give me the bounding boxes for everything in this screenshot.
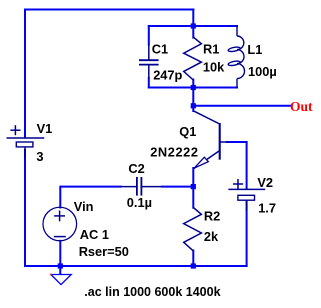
node junction squares	[58, 23, 196, 268]
wire out net	[193, 105, 291, 107]
node tank top	[191, 23, 196, 28]
node Vin ground	[58, 263, 63, 268]
svg-text:L1: L1	[247, 42, 262, 57]
capacitor C1	[139, 44, 159, 78]
resistor R2	[184, 208, 202, 251]
resistor R1	[184, 37, 202, 80]
wire emitter column	[192, 168, 194, 208]
svg-text:1.7: 1.7	[258, 201, 276, 216]
transistor Q1 (2N2222 NPN)	[193, 111, 227, 169]
svg-text:Out: Out	[290, 99, 313, 114]
svg-text:2N2222: 2N2222	[150, 144, 198, 159]
inductor L1	[228, 26, 245, 88]
wire collector column	[192, 88, 194, 112]
wire left rail lower	[24, 150, 26, 266]
svg-text:AC 1: AC 1	[80, 227, 109, 242]
wire base to V2	[227, 141, 247, 143]
svg-text:247p: 247p	[153, 67, 182, 82]
voltage source Vin (AC)	[43, 207, 77, 241]
svg-text:Rser=50: Rser=50	[79, 244, 129, 259]
wire C2 to base node	[162, 186, 194, 188]
wire left rail upper	[24, 10, 26, 138]
svg-text:R2: R2	[204, 209, 220, 224]
voltage source V1 (battery)	[7, 125, 45, 158]
svg-text:2k: 2k	[204, 229, 219, 244]
node base/C2	[191, 184, 196, 189]
svg-text:V2: V2	[257, 175, 273, 190]
svg-text:R1: R1	[203, 42, 219, 57]
svg-text:3: 3	[36, 149, 43, 164]
wire C1 bottom lead	[148, 78, 150, 88]
wire tank top rail	[149, 25, 237, 27]
node out	[191, 103, 196, 108]
wire R2 bottom	[192, 251, 194, 267]
wire V2 bottom drop	[246, 201, 248, 266]
ground red anchor dot	[50, 274, 52, 276]
capacitor C2	[120, 177, 162, 196]
svg-text:Q1: Q1	[179, 124, 196, 139]
wire R1 bottom lead	[192, 80, 194, 88]
svg-text:C1: C1	[152, 42, 168, 57]
wire Vin bottom	[59, 241, 61, 266]
svg-text:C2: C2	[128, 161, 144, 176]
wire Vin top	[60, 187, 120, 208]
node tank bottom	[191, 85, 196, 90]
svg-text:100µ: 100µ	[248, 64, 277, 79]
node R2 bottom	[191, 263, 196, 268]
wire tank feed	[192, 10, 194, 27]
ground	[51, 266, 71, 285]
svg-text:Vin: Vin	[74, 199, 94, 214]
wire V2 top drop	[246, 142, 248, 189]
wire tank bottom rail	[149, 87, 237, 89]
voltage source V2 (battery)	[228, 179, 265, 211]
wire C1 top lead	[148, 26, 150, 45]
svg-text:10k: 10k	[203, 59, 225, 74]
svg-text:0.1µ: 0.1µ	[127, 195, 152, 210]
wire top rail	[25, 9, 193, 11]
wire bottom rail	[25, 265, 247, 267]
wire R1 top lead	[192, 26, 194, 38]
svg-text:.ac lin 1000 600k 1400k: .ac lin 1000 600k 1400k	[84, 285, 220, 299]
svg-text:V1: V1	[37, 121, 53, 136]
